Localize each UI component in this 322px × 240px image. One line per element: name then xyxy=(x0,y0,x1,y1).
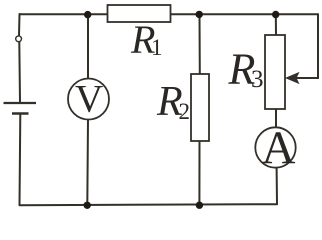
wire ammeter to bottom xyxy=(276,167,278,204)
resistor R2 xyxy=(191,74,209,141)
svg-text:3: 3 xyxy=(251,66,264,93)
svg-text:V: V xyxy=(75,78,103,121)
node top-left junction xyxy=(84,11,91,18)
wire R2 branch upper xyxy=(199,14,201,74)
wire voltmeter branch lower xyxy=(86,119,89,205)
wire bottom xyxy=(20,204,278,205)
node bottom-left junction xyxy=(84,202,91,209)
wire R3 to ammeter xyxy=(275,109,277,128)
wire switch to battery xyxy=(18,42,21,102)
node bottom-middle junction xyxy=(196,202,203,209)
wire left branch upper (switch to top) xyxy=(18,14,21,36)
wire R3 branch upper xyxy=(275,14,277,35)
wire battery to bottom xyxy=(19,115,22,206)
node top-middle junction xyxy=(196,11,203,18)
battery long plate xyxy=(4,102,37,104)
resistor R1 xyxy=(108,5,171,22)
svg-text:1: 1 xyxy=(151,35,163,60)
rheostat R3 xyxy=(265,35,285,109)
wire right edge to wiper xyxy=(290,14,318,78)
svg-text:2: 2 xyxy=(179,99,191,124)
wire R2 branch lower xyxy=(198,141,200,205)
voltmeter V xyxy=(68,79,109,120)
battery short plate xyxy=(12,112,29,115)
ammeter A xyxy=(255,127,295,167)
wire top xyxy=(20,13,319,15)
node top-right junction xyxy=(272,11,279,18)
svg-text:A: A xyxy=(262,122,296,174)
switch contact circle xyxy=(16,36,22,42)
wire voltmeter branch upper xyxy=(87,15,89,79)
rheostat wiper arrowhead xyxy=(286,73,298,83)
